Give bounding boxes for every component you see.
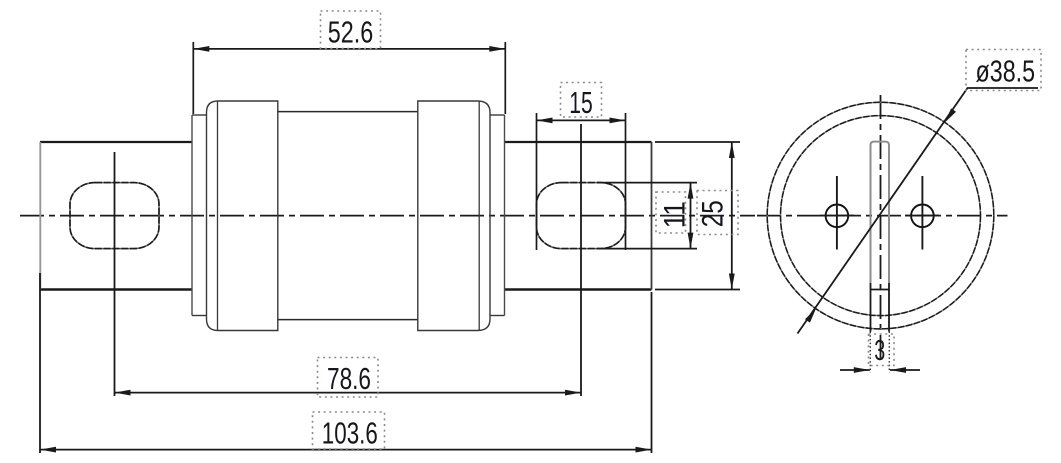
right small hole: [905, 176, 939, 250]
end-on blade: [871, 142, 890, 332]
dimension 52.6: [193, 11, 505, 114]
dimension 3: [840, 332, 920, 373]
centerline side view: [20, 215, 755, 217]
svg-text:ø38.5: ø38.5: [976, 54, 1036, 89]
svg-text:25: 25: [697, 200, 730, 227]
right end disc: [490, 115, 505, 316]
left end disc: [192, 115, 207, 316]
dimension 103.6: [40, 273, 652, 453]
dimension 78.6: [115, 358, 582, 398]
right blade terminal: [505, 142, 652, 290]
inner circle: [781, 116, 981, 316]
ceramic tube body: [278, 112, 418, 320]
left small hole: [820, 176, 854, 250]
dimension 15: [537, 83, 626, 251]
outer circle: [767, 102, 994, 329]
diameter leader line: [798, 50, 1042, 334]
end view vertical centerline: [880, 95, 882, 358]
right hole vertical centerline / 78.6 extension: [580, 124, 582, 396]
svg-text:15: 15: [569, 85, 593, 120]
svg-text:3: 3: [874, 335, 885, 367]
end view horizontal centerline: [757, 215, 1008, 217]
dimension 11: [597, 183, 697, 249]
left end cap: [207, 101, 278, 331]
left blade terminal: [40, 142, 193, 290]
svg-text:52.6: 52.6: [328, 15, 374, 50]
left slot hole: [70, 183, 159, 249]
dimension 25: [655, 142, 740, 290]
left hole vertical centerline / 78.6 extension: [114, 152, 116, 396]
svg-text:11: 11: [659, 201, 692, 228]
right end cap: [418, 101, 490, 331]
svg-text:78.6: 78.6: [327, 361, 371, 396]
svg-text:103.6: 103.6: [322, 416, 378, 451]
right slot hole: [537, 183, 626, 249]
